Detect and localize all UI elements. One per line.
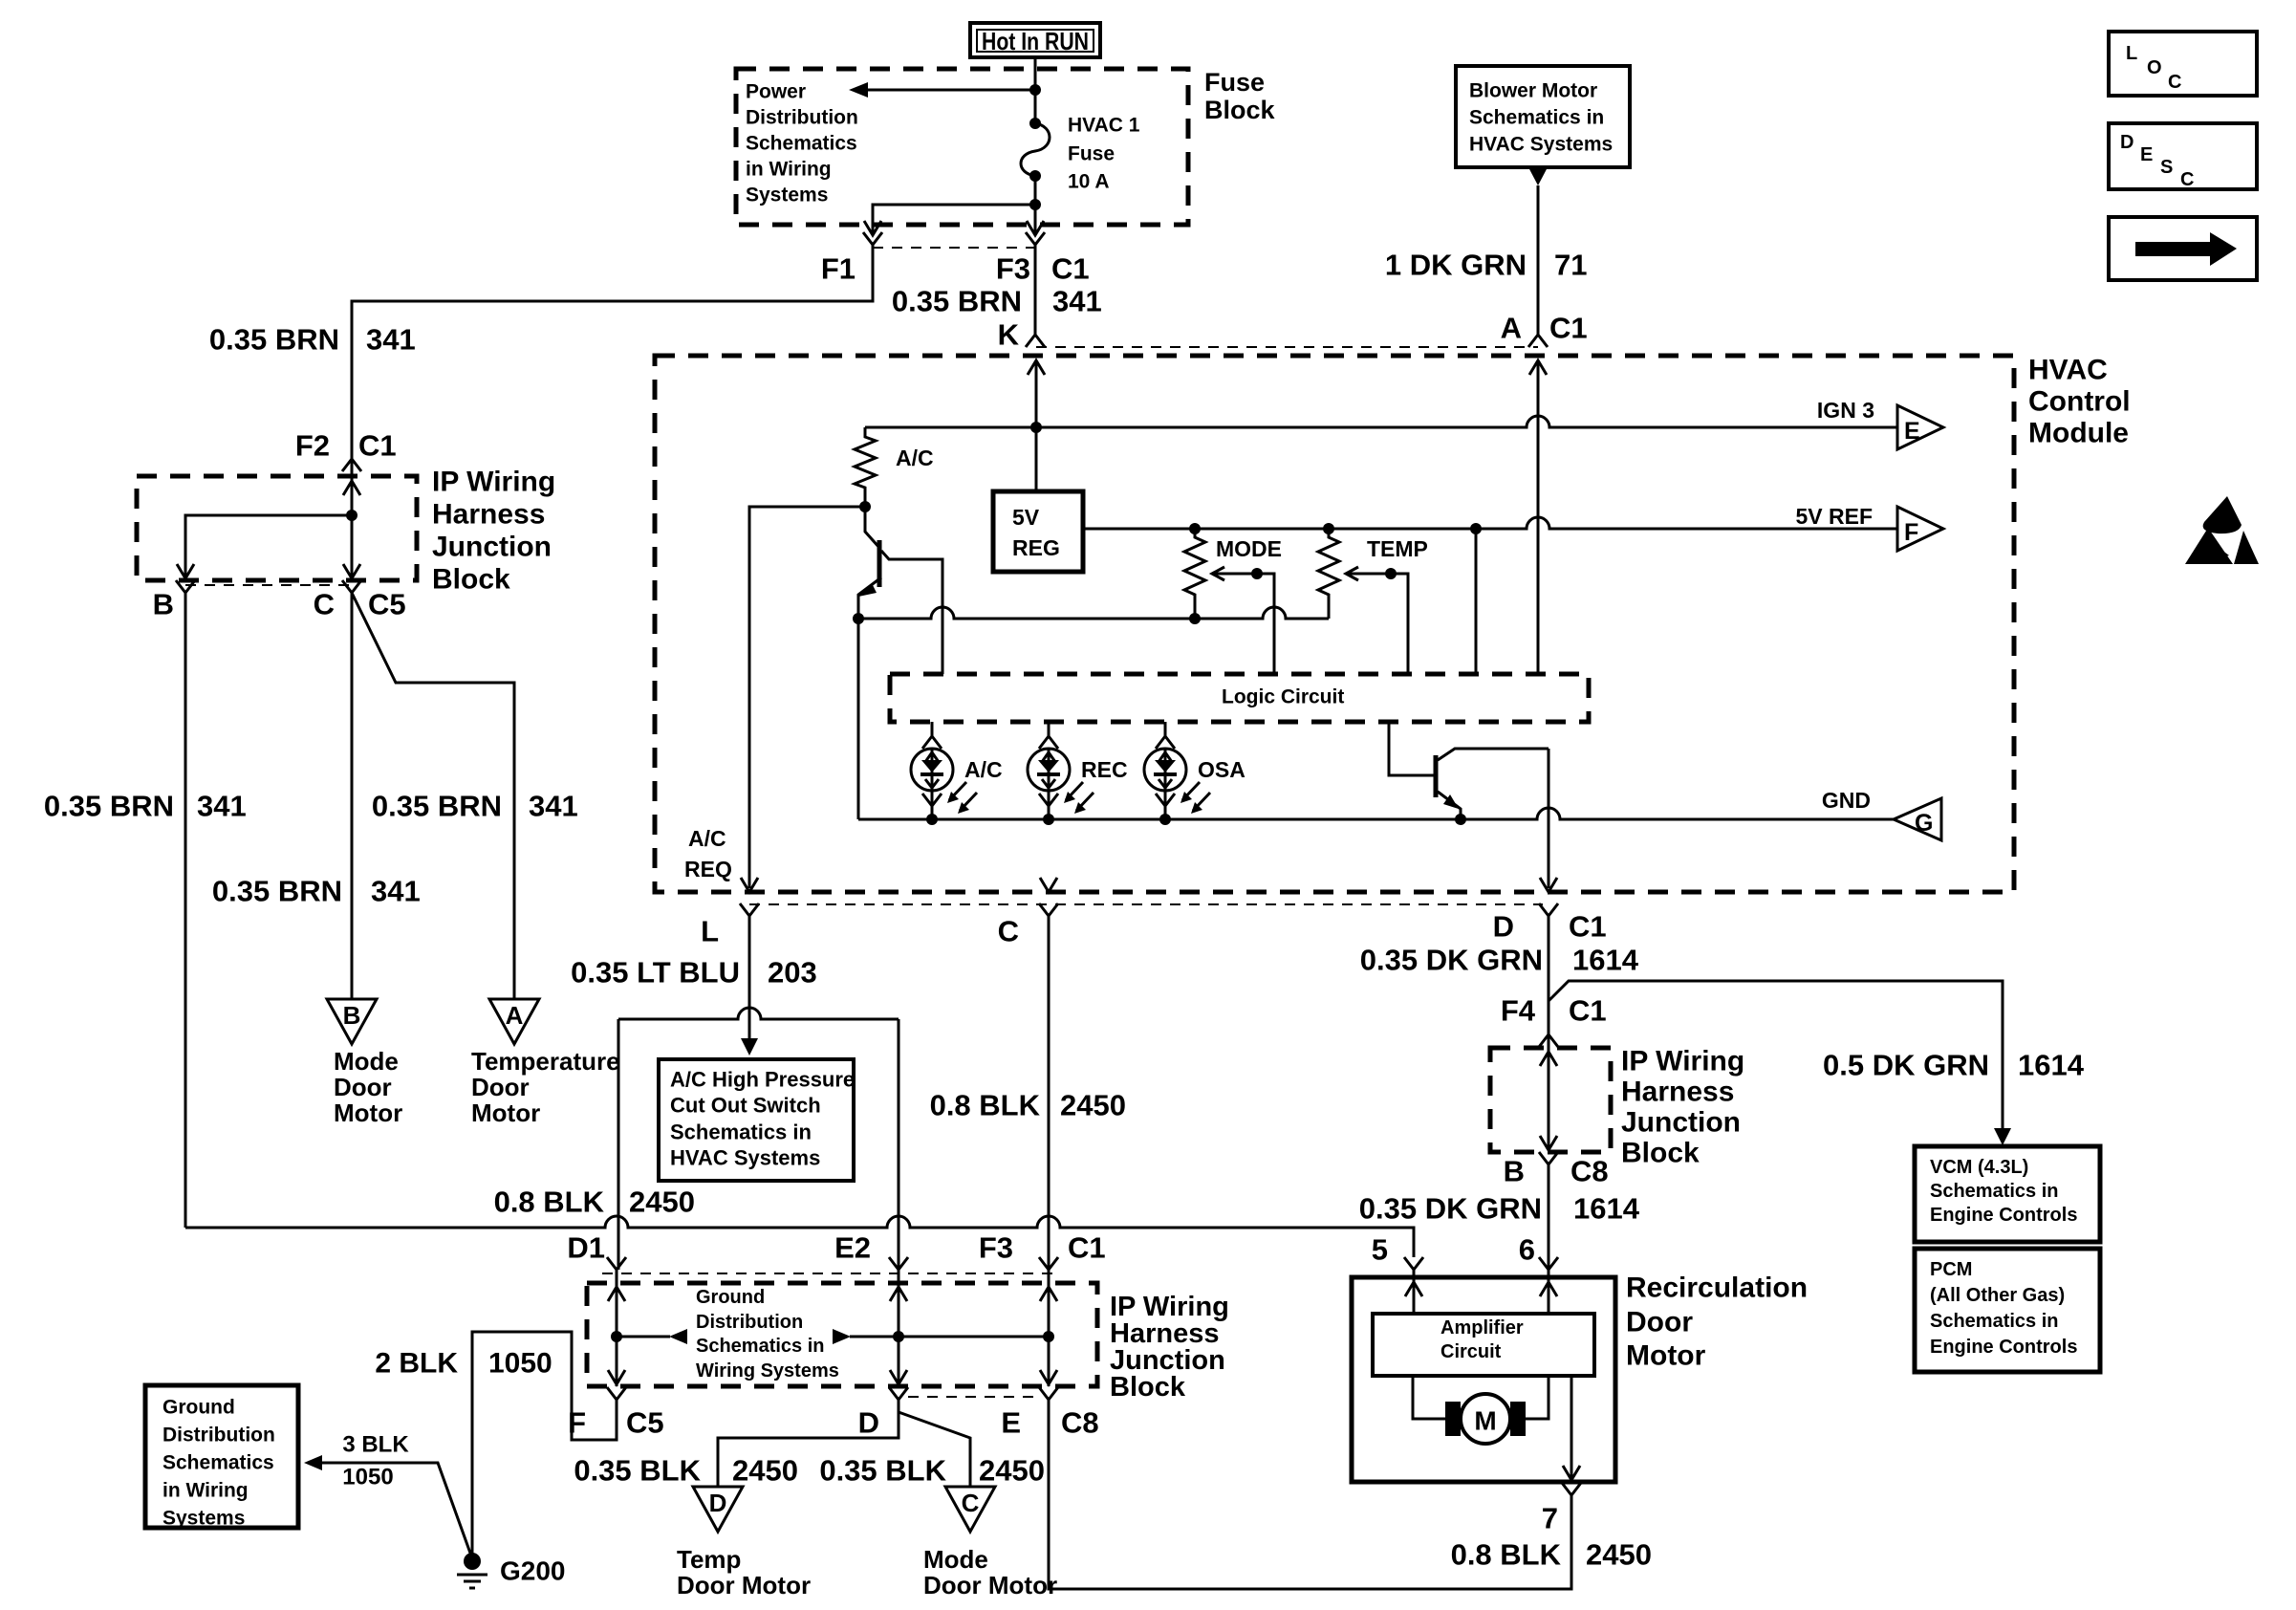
svg-text:Circuit: Circuit [1440,1341,1502,1362]
svg-text:Door Motor: Door Motor [677,1571,811,1599]
svg-text:Mode: Mode [334,1047,399,1076]
svg-text:2 BLK: 2 BLK [375,1348,458,1380]
svg-text:Door Motor: Door Motor [923,1571,1057,1599]
svg-text:B: B [1504,1155,1525,1188]
svg-text:2450: 2450 [732,1454,798,1488]
svg-text:Temperature: Temperature [471,1047,620,1076]
svg-text:C5: C5 [368,588,406,621]
svg-text:HVAC 1: HVAC 1 [1068,115,1140,137]
svg-text:Ground: Ground [162,1397,235,1419]
svg-text:A/C: A/C [896,446,934,470]
svg-text:A: A [1501,312,1522,345]
svg-text:Motor: Motor [471,1099,540,1127]
svg-text:D: D [2120,132,2134,153]
svg-text:341: 341 [1052,285,1102,318]
svg-text:C1: C1 [1051,252,1090,286]
svg-text:in Wiring: in Wiring [162,1480,249,1502]
svg-text:IP Wiring: IP Wiring [432,467,555,498]
svg-text:341: 341 [371,875,421,908]
svg-text:E: E [1001,1406,1021,1440]
svg-text:Distribution: Distribution [162,1425,275,1447]
svg-text:0.35 BRN: 0.35 BRN [372,790,502,823]
svg-text:5V REF: 5V REF [1795,504,1873,529]
svg-text:0.35 BRN: 0.35 BRN [892,285,1022,318]
svg-text:Block: Block [1204,96,1276,124]
svg-text:REG: REG [1012,535,1060,560]
svg-text:PCM: PCM [1930,1259,1972,1280]
svg-text:(All Other Gas): (All Other Gas) [1930,1285,2065,1306]
svg-text:Ground: Ground [696,1287,765,1308]
svg-text:0.35 BRN: 0.35 BRN [212,875,342,908]
svg-text:Blower Motor: Blower Motor [1469,80,1597,102]
svg-text:Schematics: Schematics [746,133,857,155]
svg-text:341: 341 [529,790,578,823]
svg-text:C: C [2168,72,2181,93]
svg-text:6: 6 [1519,1233,1535,1267]
svg-text:341: 341 [366,323,416,357]
svg-text:C5: C5 [626,1406,664,1440]
svg-text:IP Wiring: IP Wiring [1621,1046,1744,1077]
svg-text:HVAC Systems: HVAC Systems [1469,134,1613,156]
svg-text:Harness: Harness [432,499,545,531]
svg-text:A/C: A/C [688,826,726,851]
svg-text:E: E [1904,418,1920,445]
svg-text:C8: C8 [1061,1406,1099,1440]
svg-text:F3: F3 [979,1231,1013,1265]
svg-text:Motor: Motor [1626,1340,1706,1372]
svg-text:71: 71 [1554,249,1587,282]
svg-text:Mode: Mode [923,1545,988,1574]
svg-text:Door: Door [334,1073,392,1101]
svg-text:7: 7 [1542,1502,1558,1535]
svg-text:D: D [709,1489,727,1517]
svg-text:F2: F2 [295,429,330,463]
svg-text:Wiring Systems: Wiring Systems [696,1360,839,1382]
svg-text:0.35 BLK: 0.35 BLK [819,1454,946,1488]
svg-text:Fuse: Fuse [1204,68,1265,97]
svg-text:MODE: MODE [1216,536,1282,561]
svg-text:0.8 BLK: 0.8 BLK [494,1186,605,1219]
svg-text:Power: Power [746,81,806,103]
svg-text:1614: 1614 [2018,1049,2085,1082]
svg-text:C1: C1 [1569,994,1607,1028]
svg-text:0.35 DK GRN: 0.35 DK GRN [1359,1192,1542,1226]
svg-text:C1: C1 [1569,910,1607,944]
svg-text:Junction: Junction [432,532,552,563]
svg-text:A: A [506,1001,524,1030]
svg-text:in Wiring: in Wiring [746,159,832,181]
svg-text:1614: 1614 [1573,1192,1640,1226]
svg-text:Block: Block [432,564,510,596]
svg-text:S: S [2160,157,2173,178]
svg-text:Logic Circuit: Logic Circuit [1222,686,1344,708]
svg-text:GND: GND [1822,788,1871,813]
svg-text:Systems: Systems [162,1508,245,1530]
svg-text:D1: D1 [567,1231,605,1265]
svg-text:HVAC Systems: HVAC Systems [670,1146,820,1170]
svg-text:IGN 3: IGN 3 [1817,398,1874,423]
svg-text:2450: 2450 [1586,1538,1652,1572]
svg-text:G: G [1915,810,1933,837]
svg-text:Schematics in: Schematics in [1930,1181,2059,1202]
svg-text:Door: Door [471,1073,530,1101]
svg-text:Control: Control [2028,386,2131,418]
svg-text:0.35 LT BLU: 0.35 LT BLU [571,956,740,990]
svg-text:2450: 2450 [1060,1089,1126,1122]
svg-text:OSA: OSA [1198,757,1245,782]
svg-text:Block: Block [1621,1138,1700,1169]
svg-text:REC: REC [1081,757,1128,782]
svg-text:D: D [1493,910,1514,944]
svg-text:Systems: Systems [746,185,828,207]
svg-text:Hot In RUN: Hot In RUN [982,27,1089,55]
svg-text:F: F [1904,519,1918,546]
svg-text:Temp: Temp [677,1545,741,1574]
svg-text:Amplifier: Amplifier [1440,1317,1524,1338]
svg-text:Schematics in: Schematics in [696,1336,825,1357]
svg-text:Engine Controls: Engine Controls [1930,1337,2077,1358]
svg-text:D: D [858,1406,879,1440]
svg-text:B: B [153,588,174,621]
svg-text:Schematics: Schematics [162,1452,274,1474]
svg-text:HVAC: HVAC [2028,355,2108,386]
svg-text:5: 5 [1372,1233,1388,1267]
svg-text:203: 203 [768,956,817,990]
svg-text:0.8 BLK: 0.8 BLK [1451,1538,1562,1572]
svg-text:C: C [314,588,335,621]
svg-text:C: C [2180,169,2194,190]
svg-text:Distribution: Distribution [746,107,858,129]
svg-text:C1: C1 [1068,1231,1106,1265]
svg-text:1614: 1614 [1572,944,1639,977]
svg-text:F3: F3 [996,252,1030,286]
svg-text:2450: 2450 [629,1186,695,1219]
svg-text:1 DK GRN: 1 DK GRN [1385,249,1527,282]
svg-text:E: E [2140,144,2153,165]
svg-text:C8: C8 [1570,1155,1609,1188]
svg-text:Motor: Motor [334,1099,402,1127]
svg-text:5V: 5V [1012,505,1040,530]
svg-text:1050: 1050 [342,1465,393,1490]
svg-text:0.35 BRN: 0.35 BRN [44,790,174,823]
svg-text:Recirculation: Recirculation [1626,1273,1808,1304]
svg-text:L: L [2126,43,2137,64]
svg-text:10 A: 10 A [1068,171,1110,193]
svg-text:0.35 BLK: 0.35 BLK [574,1454,701,1488]
svg-text:VCM (4.3L): VCM (4.3L) [1930,1157,2028,1178]
svg-text:Harness: Harness [1621,1077,1734,1108]
svg-text:C: C [962,1489,980,1517]
svg-text:Distribution: Distribution [696,1312,803,1333]
svg-text:Fuse: Fuse [1068,143,1115,165]
svg-text:Cut Out Switch: Cut Out Switch [670,1094,821,1118]
svg-text:Module: Module [2028,418,2129,449]
svg-text:E2: E2 [834,1231,871,1265]
svg-text:TEMP: TEMP [1367,536,1428,561]
svg-text:C: C [998,915,1019,948]
svg-text:Schematics in: Schematics in [1469,107,1604,129]
svg-text:Schematics in: Schematics in [1930,1311,2059,1332]
svg-text:C1: C1 [358,429,397,463]
svg-text:Block: Block [1110,1372,1186,1403]
svg-text:341: 341 [197,790,247,823]
svg-text:O: O [2147,57,2162,78]
svg-text:Engine Controls: Engine Controls [1930,1205,2077,1226]
svg-text:A/C High Pressure: A/C High Pressure [670,1068,855,1092]
svg-text:G200: G200 [500,1556,566,1586]
svg-text:0.35 DK GRN: 0.35 DK GRN [1360,944,1543,977]
svg-text:Junction: Junction [1621,1107,1741,1139]
svg-text:L: L [701,915,719,948]
svg-text:M: M [1474,1406,1496,1436]
svg-text:F1: F1 [821,252,856,286]
svg-text:B: B [343,1001,361,1030]
svg-text:0.5 DK GRN: 0.5 DK GRN [1823,1049,1989,1082]
svg-text:Door: Door [1626,1307,1693,1338]
svg-text:C1: C1 [1549,312,1588,345]
svg-text:REQ: REQ [684,857,732,881]
svg-text:0.8 BLK: 0.8 BLK [930,1089,1041,1122]
svg-text:F4: F4 [1501,994,1536,1028]
svg-text:A/C: A/C [964,757,1003,782]
svg-text:1050: 1050 [488,1348,552,1380]
svg-text:K: K [998,318,1020,352]
svg-text:2450: 2450 [979,1454,1045,1488]
svg-text:3 BLK: 3 BLK [342,1432,409,1458]
svg-text:0.35 BRN: 0.35 BRN [209,323,339,357]
svg-text:Schematics in: Schematics in [670,1120,812,1144]
